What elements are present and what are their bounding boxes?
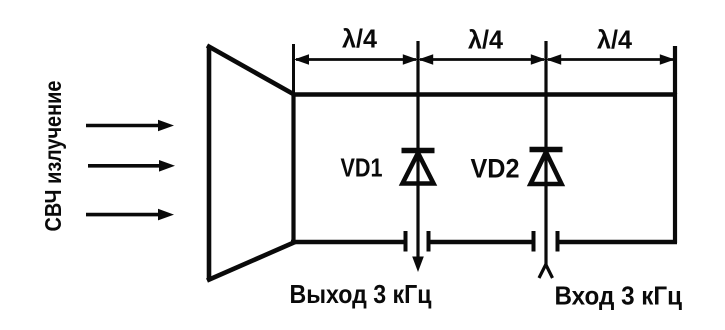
- coupling bar 2b: [556, 231, 560, 252]
- right vertical line: [673, 93, 677, 243]
- dimension line segment 2: [418, 54, 546, 64]
- dimension line segment 3: [546, 54, 675, 64]
- bottom line middle segment: [429, 240, 534, 244]
- radiation arrow 3: [86, 209, 174, 221]
- svg-text:Вход 3 кГц: Вход 3 кГц: [555, 281, 683, 311]
- dimension tick mid-2: [545, 41, 548, 94]
- diode VD1: [402, 151, 435, 184]
- input arrowhead VD2 (chevron): [539, 265, 553, 279]
- svg-text:λ/4: λ/4: [342, 24, 378, 54]
- top transmission line: [292, 92, 677, 97]
- dimension tick mid-1: [417, 41, 420, 94]
- svg-text:VD2: VD2: [471, 154, 520, 184]
- dimension tick left: [292, 44, 295, 95]
- radiation arrow 2: [88, 160, 175, 172]
- horn antenna: [207, 46, 295, 281]
- coupling bar 1b: [427, 231, 431, 252]
- dimension tick right: [673, 46, 677, 94]
- dimension line segment 1: [294, 54, 418, 64]
- coupling bar 1a: [404, 231, 408, 252]
- svg-text:λ/4: λ/4: [597, 25, 633, 55]
- bottom line right segment: [558, 240, 678, 244]
- bottom line left segment: [291, 240, 406, 244]
- svg-text:Выход 3 кГц: Выход 3 кГц: [290, 279, 432, 309]
- coupling bar 2a: [532, 231, 536, 252]
- wire VD1 vertical: [416, 41, 419, 260]
- svg-text:λ/4: λ/4: [468, 25, 504, 55]
- wire VD2 vertical: [544, 41, 547, 266]
- diode VD2: [530, 150, 563, 185]
- output arrowhead VD1: [412, 257, 424, 273]
- radiation arrow 1: [86, 120, 174, 132]
- svg-text:СВЧ излучение: СВЧ излучение: [40, 81, 66, 232]
- svg-text:VD1: VD1: [341, 153, 383, 183]
